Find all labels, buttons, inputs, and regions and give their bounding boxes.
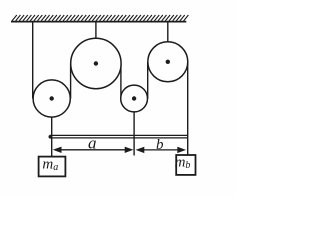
pulley P4 right [148, 42, 188, 82]
mass mb [175, 154, 196, 175]
wire rope left pulley center to mass ma [51, 99, 53, 157]
ceiling line [11, 21, 186, 23]
pulley P2 large top [71, 38, 121, 88]
wire rope middle pulley center down [133, 99, 135, 156]
dimension b [136, 137, 186, 153]
svg-text:b: b [156, 137, 164, 153]
wire support ceiling to large pulley center [95, 22, 97, 64]
dimension a [53, 133, 134, 153]
pulley P3 middle small [121, 85, 148, 112]
ceiling [12, 15, 188, 21]
wire rope ceiling to left pulley left tangent [32, 22, 34, 99]
wire rope middle pulley to right pulley [147, 62, 149, 99]
pulley P1 left small [33, 80, 70, 117]
node junction on bar [49, 135, 53, 139]
svg-text:a: a [88, 133, 97, 152]
wire rope left pulley to large pulley [70, 64, 72, 99]
wire support ceiling to right pulley center [167, 22, 169, 62]
wire rope large pulley to middle pulley [120, 64, 122, 99]
mass ma [39, 157, 66, 177]
wire rope right pulley to mass mb [187, 62, 189, 155]
bar double line [50, 135, 189, 138]
